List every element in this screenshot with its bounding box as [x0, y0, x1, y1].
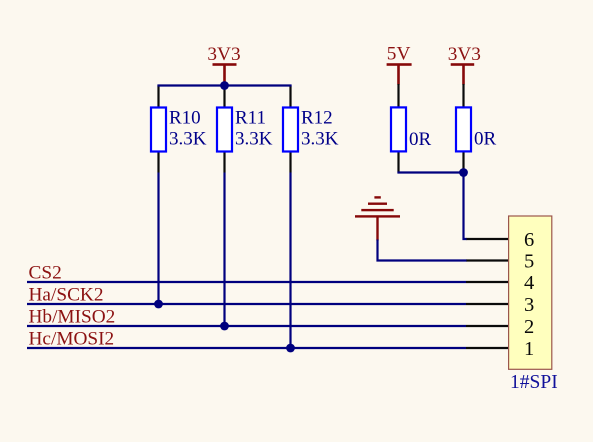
svg-text:5: 5 [524, 250, 534, 272]
svg-text:5V: 5V [387, 44, 411, 65]
svg-text:R11: R11 [235, 108, 266, 129]
svg-text:R12: R12 [301, 108, 333, 129]
svg-text:3V3: 3V3 [207, 44, 240, 65]
svg-text:3V3: 3V3 [448, 44, 481, 65]
svg-text:3.3K: 3.3K [301, 128, 339, 149]
svg-text:6: 6 [524, 229, 534, 251]
svg-text:CS2: CS2 [29, 262, 62, 283]
svg-text:3.3K: 3.3K [235, 128, 273, 149]
svg-text:0R: 0R [409, 129, 432, 150]
svg-text:3: 3 [524, 294, 534, 316]
svg-text:Hc/MOSI2: Hc/MOSI2 [29, 328, 115, 349]
svg-text:Hb/MISO2: Hb/MISO2 [29, 306, 116, 327]
svg-text:2: 2 [524, 316, 534, 338]
svg-text:1#SPI: 1#SPI [510, 372, 558, 393]
svg-text:4: 4 [524, 272, 534, 294]
svg-text:R10: R10 [169, 108, 201, 129]
svg-text:Ha/SCK2: Ha/SCK2 [29, 284, 104, 305]
svg-text:0R: 0R [474, 129, 497, 150]
svg-text:1: 1 [524, 338, 534, 360]
svg-text:3.3K: 3.3K [169, 128, 207, 149]
